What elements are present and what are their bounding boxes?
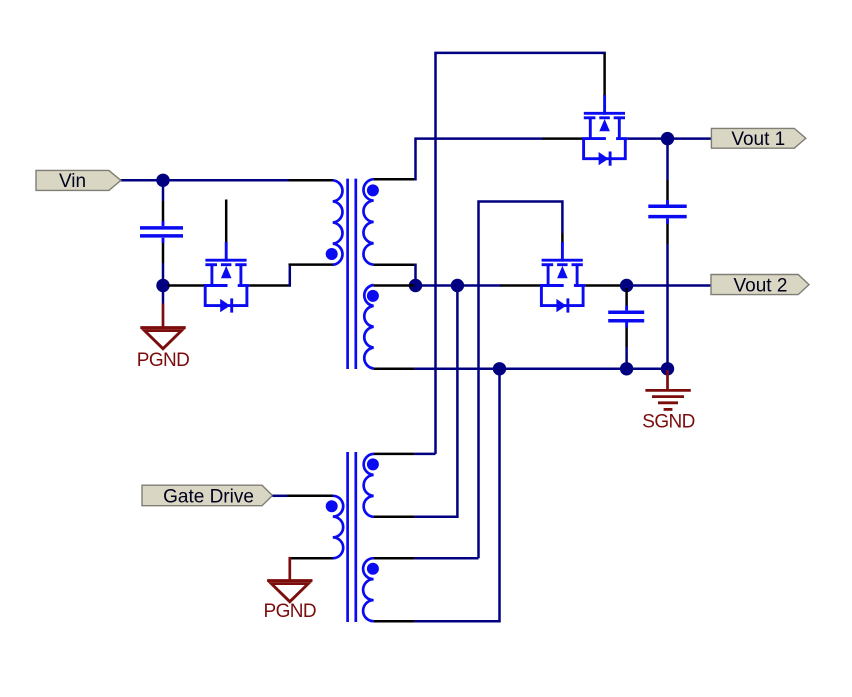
port Gate Drive bbox=[142, 485, 273, 506]
pin T2 secondary1 bottom (black) bbox=[374, 516, 415, 519]
pin C2 top (black) bbox=[625, 288, 628, 306]
wire top gate run bbox=[436, 53, 605, 454]
pin Q3 drain (black) bbox=[543, 137, 583, 140]
capacitor C3 bbox=[648, 200, 686, 224]
transformer T2 secondary2 winding bbox=[363, 558, 373, 621]
pin C3 top (black) bbox=[666, 180, 669, 200]
svg-text:Gate Drive: Gate Drive bbox=[163, 486, 254, 507]
ground SGND symbol bbox=[645, 370, 690, 409]
transformer T1 primary polarity dot bbox=[326, 248, 338, 260]
node junction Vout1 / C3 bbox=[661, 132, 674, 145]
node junction Vout2 / C2 bbox=[620, 279, 633, 292]
transformer T1 secondary bottom polarity dot bbox=[367, 290, 379, 302]
wire gate return 1 vertical bbox=[414, 286, 457, 517]
transistor Q3 MOSFET bbox=[582, 95, 628, 166]
wire SGND rail bbox=[414, 368, 667, 371]
svg-text:Vout 1: Vout 1 bbox=[731, 129, 785, 150]
pin T1 primary bottom (black) bbox=[289, 263, 334, 266]
transformer T1 core bbox=[346, 179, 349, 369]
transformer T1 primary winding bbox=[333, 180, 343, 264]
wire gate2 top link bbox=[414, 557, 478, 560]
wire C1 bottom to node bbox=[162, 263, 165, 286]
pin C1 bottom (black) bbox=[162, 243, 165, 263]
port Vout 1 bbox=[711, 128, 805, 148]
pin T1 primary top (black) bbox=[289, 179, 334, 182]
pin Q1 gate stub (black) bbox=[225, 200, 228, 244]
wire secondary top to Q3 drain bbox=[414, 139, 543, 180]
node junction rail / C2 bbox=[620, 362, 633, 375]
transformer T2 core bbox=[346, 452, 349, 622]
svg-text:Vout 2: Vout 2 bbox=[734, 275, 788, 296]
node junction center tap rail bbox=[409, 279, 422, 292]
ground PGND symbol 1 bbox=[140, 304, 185, 349]
transistor Q2 MOSFET bbox=[540, 242, 586, 313]
wire gate2 return vertical bbox=[414, 369, 499, 621]
svg-text:PGND: PGND bbox=[137, 350, 190, 371]
svg-text:Vin: Vin bbox=[59, 171, 86, 192]
svg-text:PGND: PGND bbox=[264, 601, 317, 622]
pin T2 primary bottom (black) bbox=[289, 557, 334, 560]
wire node to PGND bbox=[162, 286, 165, 304]
pin C2 bottom (black) bbox=[625, 328, 628, 348]
pin T1 secondary top-top (black) bbox=[374, 178, 415, 181]
transformer T1 secondary top polarity dot bbox=[367, 184, 379, 196]
pin T1 secondary bottom-top (black) bbox=[374, 284, 415, 287]
transformer T2 secondary1 winding bbox=[364, 454, 374, 517]
transformer T2 secondary1 polarity dot bbox=[367, 458, 379, 470]
pin T2 secondary2 top (black) bbox=[374, 557, 415, 560]
port Vin bbox=[36, 170, 121, 190]
node junction C1 / Q1 / PGND bbox=[156, 279, 169, 292]
transformer T2 secondary2 polarity dot bbox=[367, 563, 379, 575]
wire C3 top vertical bbox=[666, 139, 669, 180]
pin Q3 gate (black) bbox=[603, 54, 606, 97]
transformer T1 secondary bottom winding bbox=[364, 285, 373, 368]
pin T2 primary top (black) bbox=[288, 495, 334, 498]
pin Q1 drain (black) bbox=[168, 284, 204, 287]
capacitor C2 bbox=[608, 306, 644, 328]
transformer T2 primary winding bbox=[333, 496, 343, 558]
capacitor C1 bbox=[140, 221, 183, 243]
wire center rail to Q2 bbox=[416, 284, 502, 287]
wire Gate Drive to T2 bbox=[273, 495, 289, 498]
pin Q2 gate (black) bbox=[561, 234, 564, 244]
pin Q1 source (black) bbox=[249, 284, 291, 287]
node junction rail / gate return bbox=[451, 279, 464, 292]
wire C1 top vertical bbox=[162, 180, 165, 201]
wire Q2 gate run bbox=[479, 202, 563, 559]
node junction rail / gate2 return bbox=[493, 362, 506, 375]
node junction rail / C3 / SGND bbox=[661, 362, 674, 375]
pin T2 secondary2 bottom (black) bbox=[374, 620, 415, 623]
pin T1 secondary top-bottom (black) bbox=[374, 263, 415, 266]
port Vout 2 bbox=[711, 275, 809, 295]
wire Q1 source step up bbox=[289, 265, 292, 287]
wire Vin net horizontal bbox=[121, 179, 290, 182]
pin Q2 drain (black) bbox=[501, 284, 541, 287]
transformer T2 primary polarity dot bbox=[326, 500, 338, 512]
pin C1 top (black) bbox=[162, 201, 165, 221]
transistor Q1 MOSFET bbox=[204, 242, 250, 313]
wire C2 bottom to rail bbox=[625, 347, 628, 369]
pin C3 bottom (black) bbox=[666, 224, 669, 244]
wire C3 bottom to SGND rail bbox=[666, 244, 669, 369]
node junction Vin / C1 bbox=[156, 174, 169, 187]
svg-text:SGND: SGND bbox=[642, 411, 695, 432]
pin Q2 source (black) bbox=[586, 284, 621, 287]
pin T2 secondary1 top (black) bbox=[374, 453, 415, 456]
pin T1 secondary bottom-bottom (black) bbox=[374, 368, 415, 371]
transformer T1 secondary top winding bbox=[363, 179, 373, 264]
wire gate1 top link bbox=[414, 453, 435, 456]
wire Q2 source to Vout 2 bbox=[620, 284, 711, 287]
ground PGND symbol 2 bbox=[267, 557, 312, 602]
wire secondary top-bottom down to center rail bbox=[414, 265, 415, 286]
wire Q3 source to Vout 1 bbox=[628, 137, 712, 140]
